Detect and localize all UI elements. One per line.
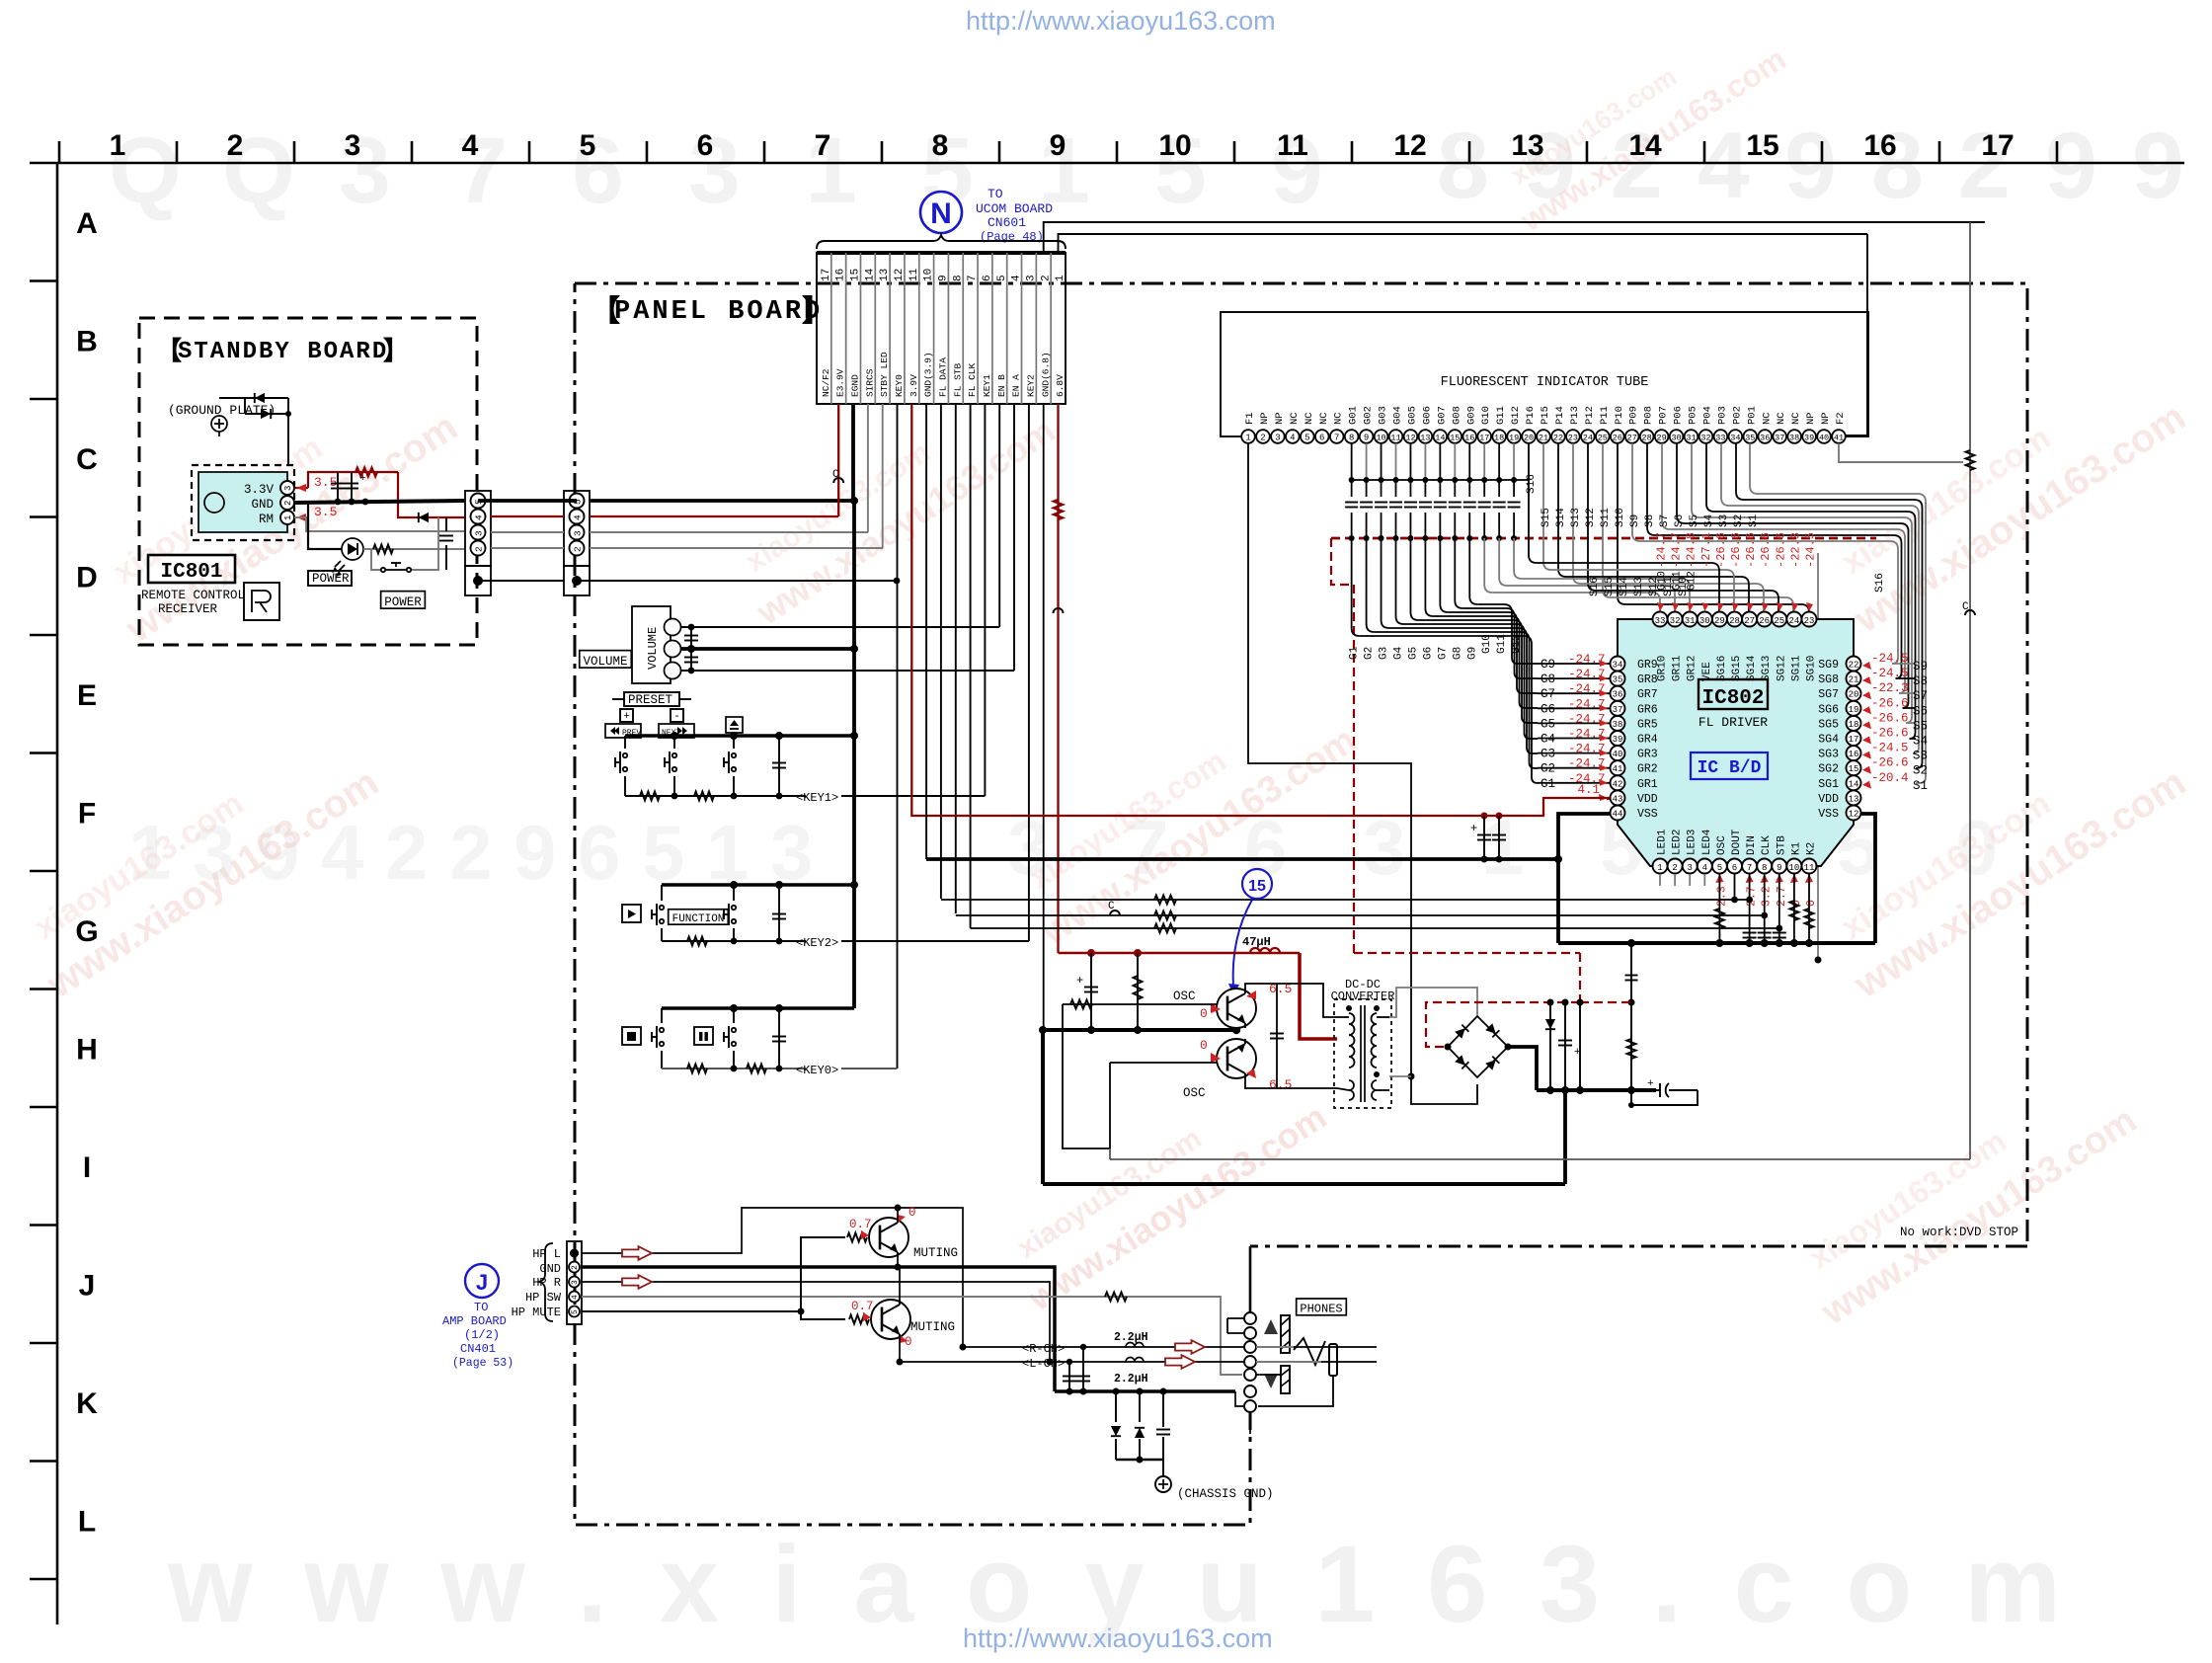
svg-text:G6: G6 xyxy=(1540,702,1555,716)
phones ring contact xyxy=(1256,1361,1321,1363)
svg-text:S14: S14 xyxy=(1619,577,1630,596)
svg-text:<KEY1>: <KEY1> xyxy=(796,791,838,805)
svg-text:13: 13 xyxy=(879,269,891,281)
svg-text:32: 32 xyxy=(1670,616,1681,626)
svg-text:34: 34 xyxy=(1613,661,1623,671)
svg-text:G08: G08 xyxy=(1451,406,1462,425)
svg-text:5: 5 xyxy=(1717,863,1722,873)
svg-text:9: 9 xyxy=(513,809,556,896)
svg-text:6: 6 xyxy=(578,809,620,896)
wire pin8 FL STB xyxy=(955,404,957,913)
svg-text:G2: G2 xyxy=(1364,647,1376,660)
svg-text:-24.7: -24.7 xyxy=(1670,532,1684,568)
svg-text:+: + xyxy=(1647,1078,1654,1090)
vertical from rail to low network xyxy=(1630,943,1632,1105)
svg-text:HP SW: HP SW xyxy=(525,1291,562,1305)
svg-text:G3: G3 xyxy=(1540,748,1555,761)
svg-text:MUTING: MUTING xyxy=(913,1246,958,1260)
S fan S16-S10 to IC top pins xyxy=(1617,443,1619,596)
15 circled callout blue xyxy=(1242,869,1272,899)
connector N body xyxy=(817,253,1066,404)
svg-text:10: 10 xyxy=(1788,863,1799,873)
svg-text:43: 43 xyxy=(1613,794,1623,804)
svg-text:-24.8: -24.8 xyxy=(1685,532,1698,568)
svg-text:S7: S7 xyxy=(1659,515,1671,527)
svg-text:S8: S8 xyxy=(1644,515,1656,527)
svg-text:2: 2 xyxy=(283,501,293,506)
svg-text:22: 22 xyxy=(1849,661,1859,671)
J connector 5-pin xyxy=(567,1241,582,1324)
svg-text:9: 9 xyxy=(938,275,950,281)
stop button box xyxy=(622,1027,641,1045)
left ruler xyxy=(56,163,59,1624)
svg-text:RECEIVER: RECEIVER xyxy=(158,602,218,616)
svg-text:24: 24 xyxy=(1583,434,1593,443)
svg-text:-27.1: -27.1 xyxy=(1699,532,1713,568)
svg-text:SG14: SG14 xyxy=(1746,655,1758,681)
svg-text:<KEY0>: <KEY0> xyxy=(796,1064,838,1077)
IC801 remote control receiver block xyxy=(192,465,294,540)
red dashed VEE bus xyxy=(1331,537,1876,540)
svg-text:K: K xyxy=(76,1387,98,1420)
svg-text:NC: NC xyxy=(1776,412,1787,425)
svg-text:11: 11 xyxy=(908,268,920,281)
wire pin4 EN A xyxy=(1013,404,1015,671)
svg-text:HP L: HP L xyxy=(532,1247,561,1261)
svg-text:GND(3.9): GND(3.9) xyxy=(923,352,934,397)
Q2 base rail xyxy=(1110,1062,1217,1064)
svg-text:+: + xyxy=(1470,822,1477,835)
svg-text:NC: NC xyxy=(1333,412,1345,425)
svg-text:G7: G7 xyxy=(1437,647,1449,660)
svg-text:EN A: EN A xyxy=(1011,374,1022,397)
svg-text:GR4: GR4 xyxy=(1637,734,1658,747)
svg-text:9: 9 xyxy=(2132,114,2184,218)
svg-text:2: 2 xyxy=(1672,863,1677,873)
svg-text:P10: P10 xyxy=(1614,406,1625,425)
wire pin2 top stub xyxy=(1044,222,1985,253)
svg-text:7: 7 xyxy=(967,275,979,281)
svg-text:39: 39 xyxy=(1613,735,1623,745)
svg-text:38: 38 xyxy=(1613,720,1623,730)
svg-text:SG7: SG7 xyxy=(1818,688,1839,701)
GND 3.9 thick rail xyxy=(925,404,927,859)
svg-text:CN401: CN401 xyxy=(460,1342,496,1356)
svg-text:3.2: 3.2 xyxy=(1761,886,1774,907)
svg-text:GR2: GR2 xyxy=(1637,763,1658,776)
svg-text:FL STB: FL STB xyxy=(952,362,963,397)
svg-text:VOLUME: VOLUME xyxy=(583,655,627,669)
svg-text:9: 9 xyxy=(1784,114,1837,218)
svg-text:FUNCTION: FUNCTION xyxy=(672,913,725,925)
svg-text:】: 】 xyxy=(383,336,409,365)
svg-text:29: 29 xyxy=(1656,434,1666,443)
svg-text:G6: G6 xyxy=(1422,647,1434,660)
volume rotary encoder xyxy=(632,606,671,683)
svg-text:-24.7: -24.7 xyxy=(1655,532,1669,568)
K2 pin11 resistor xyxy=(1808,874,1810,943)
Q1 base resistor xyxy=(1063,1003,1217,1005)
gnd bottom rail xyxy=(1055,1389,1235,1393)
svg-text:25: 25 xyxy=(1774,616,1784,626)
VSS left thick xyxy=(1558,814,1610,943)
J circled letter blue xyxy=(465,1264,499,1298)
svg-text:12: 12 xyxy=(1849,810,1859,820)
svg-text:FLUORESCENT INDICATOR TUBE: FLUORESCENT INDICATOR TUBE xyxy=(1441,375,1649,390)
svg-text:FL DATA: FL DATA xyxy=(938,357,949,397)
svg-text:18: 18 xyxy=(1494,434,1504,443)
svg-text:LED1: LED1 xyxy=(1657,829,1669,855)
led xyxy=(342,538,363,560)
svg-text:3: 3 xyxy=(1363,804,1405,891)
svg-text:SG6: SG6 xyxy=(1818,703,1839,716)
IC802 FL driver body xyxy=(1618,619,1854,866)
svg-text:30: 30 xyxy=(1671,434,1681,443)
KEY1 bottom bus xyxy=(625,795,806,797)
IC802 right pins xyxy=(1847,657,1861,672)
svg-text:16: 16 xyxy=(1464,434,1474,443)
cap left of zener xyxy=(1510,1002,1512,1047)
svg-text:G12: G12 xyxy=(1510,406,1522,425)
svg-text:22: 22 xyxy=(1553,434,1563,443)
wire pin2 GND(6.8) xyxy=(1043,404,1045,1030)
svg-text:3: 3 xyxy=(345,129,361,162)
svg-text:5: 5 xyxy=(580,129,596,162)
svg-text:REMOTE CONTROL: REMOTE CONTROL xyxy=(141,589,245,602)
svg-text:NC: NC xyxy=(1318,412,1330,425)
svg-text:GR1: GR1 xyxy=(1637,778,1658,791)
svg-text:G02: G02 xyxy=(1363,406,1375,425)
IC B/D blue label xyxy=(1691,752,1768,779)
svg-text:5: 5 xyxy=(642,809,684,896)
wire pin9 FL DATA xyxy=(940,404,942,899)
svg-text:FL DRIVER: FL DRIVER xyxy=(1698,715,1768,730)
svg-text:NP: NP xyxy=(1805,412,1817,425)
svg-text:G4: G4 xyxy=(1540,733,1555,747)
svg-text:4: 4 xyxy=(1290,434,1295,443)
svg-text:3: 3 xyxy=(1687,863,1692,873)
svg-text:37: 37 xyxy=(1775,434,1784,443)
svg-text:B: B xyxy=(76,326,98,358)
svg-text:23: 23 xyxy=(1568,434,1578,443)
svg-text:S13: S13 xyxy=(1570,508,1582,527)
svg-text:IC B/D: IC B/D xyxy=(1698,758,1762,778)
wire pin13 STBY LED xyxy=(882,404,884,548)
svg-text:S7: S7 xyxy=(1913,689,1928,703)
svg-text:NC: NC xyxy=(1303,412,1315,425)
svg-text:23: 23 xyxy=(1804,616,1815,626)
svg-text:G11: G11 xyxy=(1495,406,1507,425)
svg-text:P11: P11 xyxy=(1599,406,1611,425)
play button box xyxy=(622,905,641,922)
svg-text:1: 1 xyxy=(283,515,293,520)
svg-text:G03: G03 xyxy=(1378,406,1389,425)
svg-text:KEY1: KEY1 xyxy=(982,374,992,397)
svg-text:8: 8 xyxy=(1762,863,1767,873)
svg-text:30: 30 xyxy=(1699,616,1710,626)
svg-text:P02: P02 xyxy=(1731,406,1743,425)
wires between connectors xyxy=(478,499,577,503)
svg-text:-22.3: -22.3 xyxy=(1788,532,1802,568)
HP L wire xyxy=(582,1208,963,1347)
svg-text:S9: S9 xyxy=(1913,660,1928,673)
svg-text:36: 36 xyxy=(1613,690,1623,700)
muting transistor Q default top xyxy=(869,1218,908,1257)
svg-text:6: 6 xyxy=(1319,434,1324,443)
svg-text:SG1: SG1 xyxy=(1818,778,1839,791)
svg-text:S3: S3 xyxy=(1913,750,1928,763)
Q1 collector to transformer xyxy=(1245,984,1337,1017)
svg-text:G10: G10 xyxy=(1480,406,1492,425)
svg-text:8: 8 xyxy=(1437,114,1489,218)
hop on red e3.9 wire xyxy=(833,478,843,483)
svg-text:S4: S4 xyxy=(1703,514,1715,527)
svg-text:G09: G09 xyxy=(1465,406,1477,425)
feedback cap xyxy=(1256,984,1258,1088)
G fan to IC left pins xyxy=(1351,538,1353,628)
svg-text:21: 21 xyxy=(1849,675,1859,685)
svg-text:C: C xyxy=(832,469,839,481)
svg-text:3.9V: 3.9V xyxy=(908,374,919,397)
caps on standby rails xyxy=(337,472,339,502)
function switches xyxy=(661,885,663,901)
svg-text:G11: G11 xyxy=(1672,571,1684,591)
svg-text:FL CLK: FL CLK xyxy=(967,362,978,397)
transformer windings xyxy=(1349,1013,1355,1068)
svg-text:G8: G8 xyxy=(1452,647,1463,660)
decoupling electrolytic on 6.8 xyxy=(1090,953,1092,1030)
key0 cap xyxy=(778,1008,780,1069)
svg-text:-26.6: -26.6 xyxy=(1871,756,1909,770)
svg-text:9: 9 xyxy=(1050,129,1066,162)
GND 6.8 thick rail to transistors xyxy=(1041,1028,1240,1032)
svg-text:<R-CH>: <R-CH> xyxy=(1022,1342,1065,1356)
svg-text:SG2: SG2 xyxy=(1818,763,1839,776)
svg-text:11: 11 xyxy=(1804,863,1815,873)
svg-text:14: 14 xyxy=(1849,779,1859,789)
svg-text:37: 37 xyxy=(1613,705,1623,715)
svg-text:G07: G07 xyxy=(1436,406,1448,425)
R logo box xyxy=(244,583,279,620)
svg-text:G5: G5 xyxy=(1407,647,1419,660)
svg-text:LED3: LED3 xyxy=(1687,830,1698,855)
svg-text:G06: G06 xyxy=(1421,406,1433,425)
IC802 left pins xyxy=(1611,657,1625,672)
svg-text:S10: S10 xyxy=(1615,508,1626,527)
IC802 bottom pins xyxy=(1653,859,1668,874)
svg-text:EN B: EN B xyxy=(996,374,1007,397)
eject button xyxy=(726,717,743,733)
svg-text:36: 36 xyxy=(1760,434,1770,443)
Q2 collector to transformer xyxy=(1245,1076,1337,1088)
svg-text:4: 4 xyxy=(1702,863,1707,873)
ground plate symbol xyxy=(211,416,227,432)
svg-text:P15: P15 xyxy=(1540,406,1551,425)
svg-text:SG16: SG16 xyxy=(1716,656,1728,681)
svg-text:GR6: GR6 xyxy=(1637,703,1658,716)
IC801 label box xyxy=(148,555,235,583)
svg-text:40: 40 xyxy=(1613,750,1623,759)
volume caps xyxy=(690,627,692,671)
svg-text:S16: S16 xyxy=(1589,577,1601,596)
svg-text:2: 2 xyxy=(385,809,428,896)
svg-text:A: A xyxy=(76,207,98,240)
left loop wires xyxy=(1063,1004,1110,1148)
svg-text:OSC: OSC xyxy=(1716,835,1728,855)
svg-text:G1: G1 xyxy=(1540,777,1555,791)
svg-text:S9: S9 xyxy=(1629,515,1641,527)
EGND thick vertical key matrix rail xyxy=(852,501,856,1008)
panel board dash-dot border xyxy=(575,283,2027,1246)
volume label box xyxy=(580,651,632,669)
svg-text:4: 4 xyxy=(571,1295,580,1300)
svg-text:F2: F2 xyxy=(1835,412,1847,425)
svg-text:2: 2 xyxy=(474,546,485,552)
svg-text:13: 13 xyxy=(1849,794,1859,804)
svg-text:3: 3 xyxy=(571,1280,580,1285)
svg-text:20: 20 xyxy=(1524,434,1534,443)
svg-text:S14: S14 xyxy=(1555,508,1567,527)
svg-text:4: 4 xyxy=(462,129,479,162)
svg-text:G1: G1 xyxy=(1349,646,1361,660)
svg-text:G4: G4 xyxy=(1393,646,1405,660)
svg-text:(1/2): (1/2) xyxy=(464,1328,500,1342)
svg-text:KEY0: KEY0 xyxy=(894,374,905,397)
svg-text:12: 12 xyxy=(1405,434,1415,443)
gnd thick wire xyxy=(294,501,464,503)
key0 switches xyxy=(661,1008,663,1023)
svg-text:0: 0 xyxy=(1200,1038,1208,1053)
svg-text:31: 31 xyxy=(1686,434,1696,443)
svg-text:GND(6.8): GND(6.8) xyxy=(1040,352,1051,397)
svg-text:NP: NP xyxy=(1274,412,1286,425)
svg-text:CN601: CN601 xyxy=(987,215,1026,230)
svg-text:4: 4 xyxy=(1698,114,1750,218)
svg-text:SG8: SG8 xyxy=(1818,673,1839,686)
svg-text:-26.6: -26.6 xyxy=(1871,711,1909,725)
svg-text:-26.6: -26.6 xyxy=(1871,727,1909,741)
standby wiring xyxy=(294,487,308,489)
svg-text:S8: S8 xyxy=(1913,674,1928,688)
svg-text:3: 3 xyxy=(573,530,584,536)
svg-text:+: + xyxy=(623,711,630,723)
key0 bottom bus xyxy=(662,1068,806,1069)
loop back thin xyxy=(1631,1090,1698,1105)
svg-text:G5: G5 xyxy=(1540,717,1555,731)
svg-text:+: + xyxy=(1076,974,1083,988)
svg-text:6.8V: 6.8V xyxy=(1055,374,1066,397)
svg-text:1: 1 xyxy=(805,119,857,223)
caps between channels xyxy=(1066,1359,1072,1365)
pink diagonal watermarks xyxy=(89,361,465,652)
svg-text:17: 17 xyxy=(821,269,832,281)
svg-text:10: 10 xyxy=(923,269,935,281)
svg-text:21: 21 xyxy=(1539,434,1548,443)
svg-text:3: 3 xyxy=(474,530,485,536)
svg-text:MUTING: MUTING xyxy=(910,1320,955,1334)
svg-text:S1: S1 xyxy=(1913,779,1928,793)
svg-text:(CHASSIS GND): (CHASSIS GND) xyxy=(1177,1487,1274,1501)
G10 G11 G12 to IC top xyxy=(1483,538,1485,585)
wire pin6 KEY1 xyxy=(984,404,986,796)
DOUT pin6 drop xyxy=(1734,874,1736,900)
svg-text:GND: GND xyxy=(539,1262,561,1276)
svg-text:G11: G11 xyxy=(1496,634,1508,654)
svg-text:UCOM BOARD: UCOM BOARD xyxy=(976,201,1053,216)
svg-text:<L-CH>: <L-CH> xyxy=(1022,1357,1065,1371)
svg-text:14: 14 xyxy=(864,268,876,281)
svg-text:G9: G9 xyxy=(1540,658,1555,672)
svg-text:-26.6: -26.6 xyxy=(1744,532,1758,568)
svg-text:No work:DVD STOP: No work:DVD STOP xyxy=(1900,1226,2018,1239)
bridge output thick xyxy=(1508,1047,1537,1090)
wire pin1 6.8V red vertical xyxy=(1057,404,1059,953)
svg-text:1: 1 xyxy=(1481,804,1524,891)
long thin loop bottom xyxy=(1110,1158,1970,1160)
svg-text:SG5: SG5 xyxy=(1818,718,1839,731)
svg-text:0: 0 xyxy=(908,1206,916,1220)
transformer leads xyxy=(1337,1016,1349,1018)
svg-text:I: I xyxy=(83,1151,91,1184)
fluorescent indicator tube box xyxy=(1221,312,1868,436)
svg-text:GR12: GR12 xyxy=(1687,656,1698,681)
key2 bottom bus xyxy=(662,940,806,942)
svg-text:-: - xyxy=(673,711,680,723)
svg-text:STBY LED: STBY LED xyxy=(879,352,890,397)
phones connector xyxy=(1244,1312,1256,1324)
svg-text:2.2µH: 2.2µH xyxy=(1114,1373,1148,1386)
wires from connector B into panel xyxy=(590,499,854,503)
svg-text:P13: P13 xyxy=(1569,406,1581,425)
svg-text:POWER: POWER xyxy=(312,572,350,586)
svg-text:1: 1 xyxy=(1245,434,1250,443)
svg-text:2: 2 xyxy=(1260,434,1265,443)
svg-text:K2: K2 xyxy=(1806,842,1818,855)
phones jack tip contact xyxy=(1256,1346,1294,1348)
svg-text:18: 18 xyxy=(1849,720,1859,730)
svg-text:SG13: SG13 xyxy=(1761,656,1773,681)
svg-text:16: 16 xyxy=(1863,129,1896,162)
OSC transistor Q1 xyxy=(1217,989,1256,1028)
svg-text:-24.5: -24.5 xyxy=(1871,667,1909,680)
svg-text:J: J xyxy=(476,1270,488,1295)
red dashed from bus to bridge xyxy=(1354,952,1580,954)
svg-text:http://www.xiaoyu163.com: http://www.xiaoyu163.com xyxy=(963,1623,1273,1653)
svg-text:PHONES: PHONES xyxy=(1300,1303,1342,1316)
svg-text:S5: S5 xyxy=(1913,719,1928,733)
svg-text:S12: S12 xyxy=(1585,508,1597,527)
svg-text:KEY2: KEY2 xyxy=(1025,374,1036,397)
svg-text:VDD: VDD xyxy=(1818,793,1839,806)
thick from rail down xyxy=(1563,1090,1567,1184)
svg-text:G7: G7 xyxy=(1540,687,1555,701)
svg-text:0: 0 xyxy=(1805,900,1818,907)
jack sleeve xyxy=(1329,1344,1337,1376)
volume wires xyxy=(680,626,999,628)
svg-text:44: 44 xyxy=(1613,810,1623,820)
R-CH line xyxy=(963,1346,1377,1348)
svg-text:15: 15 xyxy=(1849,764,1859,774)
connector N circled letter xyxy=(920,192,962,233)
key2 cap xyxy=(778,885,780,941)
svg-text:LED2: LED2 xyxy=(1672,830,1684,855)
next button xyxy=(659,724,694,738)
svg-text:9: 9 xyxy=(1364,434,1369,443)
svg-text:-20.4: -20.4 xyxy=(1871,771,1909,785)
left pigtails G9-G1 xyxy=(1538,663,1610,665)
svg-text:-26.6: -26.6 xyxy=(1714,532,1728,568)
cap to connector xyxy=(437,523,439,553)
